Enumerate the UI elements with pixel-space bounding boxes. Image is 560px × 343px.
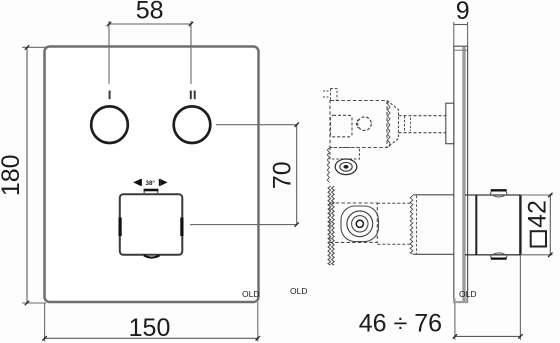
- handle bottom tab (side view): [490, 253, 507, 259]
- dimension 58 (between knob centers): [107, 0, 193, 84]
- temperature handle (square knob, front view): [120, 194, 183, 255]
- upper body inner square detail: [331, 115, 353, 137]
- handle (side view): [465, 194, 520, 255]
- lower connecting lines to sleeve (dashed): [377, 203, 412, 244]
- upper stem (dashed, to wall): [399, 116, 447, 133]
- upper body screw detail: [356, 117, 371, 131]
- svg-text:70: 70: [268, 161, 296, 189]
- dimension 180 (plate height): [0, 45, 46, 305]
- dimension 150 (plate width): [42, 302, 260, 342]
- faint watermark right: [459, 289, 476, 299]
- 38 degree safety-stop arrows: [133, 179, 167, 187]
- svg-text:42: 42: [524, 200, 552, 228]
- svg-text:38°: 38°: [146, 180, 156, 187]
- faint watermark centre: [290, 286, 307, 296]
- lower valve serrated mounting flange: [328, 186, 334, 265]
- knob I (left round button): [91, 106, 128, 143]
- dimension square-42 (handle size): [520, 193, 552, 257]
- dimension 70 (knob to handle centre distance): [190, 123, 299, 227]
- dimension 9 (plate thickness): [454, 0, 470, 46]
- handle right grip mark: [180, 218, 183, 237]
- handle top tab (side view): [490, 190, 507, 197]
- handle top tab: [144, 190, 159, 194]
- svg-text:58: 58: [136, 0, 164, 24]
- marking II (above right knob): [190, 91, 196, 100]
- svg-text:180: 180: [0, 154, 25, 196]
- svg-text:OLD: OLD: [459, 289, 476, 299]
- handle bottom notch arc: [144, 255, 160, 257]
- lower thermostat body (dashed): [330, 203, 377, 242]
- upper valve body (concealed diverter, dashed): [323, 89, 387, 148]
- extension sleeve through wall: [410, 195, 454, 255]
- knob II (right round button): [174, 106, 211, 143]
- plate (front view, 150x180 wall plate): [45, 47, 259, 303]
- lower cartridge concentric circles: [341, 206, 379, 242]
- upper wall bushing: [446, 103, 454, 144]
- svg-text:OLD: OLD: [290, 286, 307, 296]
- svg-text:9: 9: [456, 0, 470, 25]
- handle left grip mark: [118, 218, 121, 237]
- svg-text:150: 150: [129, 314, 171, 342]
- svg-text:46 ÷ 76: 46 ÷ 76: [359, 310, 442, 338]
- dimension 46 to 76 (installation depth): [359, 255, 523, 339]
- svg-text:OLD: OLD: [242, 289, 259, 299]
- faint watermark left: [242, 289, 259, 299]
- upper body cone (dashed): [387, 101, 399, 148]
- upper mounting bracket with oval lug: [327, 148, 359, 183]
- plate (side view, 9mm thick): [454, 46, 468, 302]
- marking I (above left knob): [109, 91, 111, 100]
